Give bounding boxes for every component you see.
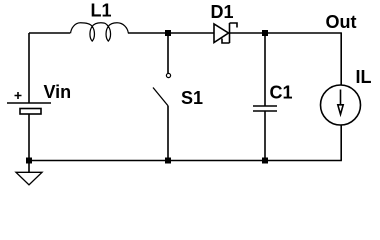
svg-text:IL: IL xyxy=(356,67,372,87)
node junction bottom switch xyxy=(165,158,171,164)
inductor L1 xyxy=(71,23,129,41)
wire capacitor top xyxy=(264,33,266,106)
wire switch bottom xyxy=(167,106,169,161)
diode D1 xyxy=(214,24,229,43)
node junction top capacitor xyxy=(262,30,268,36)
ground stub xyxy=(28,161,30,173)
svg-text:D1: D1 xyxy=(211,2,234,22)
svg-text:S1: S1 xyxy=(181,88,203,108)
wire battery to rail xyxy=(28,114,30,161)
bottom rail xyxy=(29,160,342,162)
svg-text:L1: L1 xyxy=(91,1,112,21)
node junction top switch xyxy=(165,30,171,36)
wire top-left horizontal xyxy=(29,32,70,34)
svg-text:Vin: Vin xyxy=(44,82,72,102)
wire right vertical bottom xyxy=(340,125,342,161)
wire left vertical (battery top) xyxy=(28,33,30,103)
wire switch top xyxy=(167,33,169,73)
wire right vertical top xyxy=(340,33,342,85)
switch S1 blade xyxy=(153,88,168,107)
wire capacitor bottom xyxy=(264,111,266,161)
switch S1 contact circle xyxy=(166,73,170,77)
battery Vin bottom plate xyxy=(20,109,41,115)
current source IL circle xyxy=(321,85,361,125)
svg-text:Out: Out xyxy=(326,12,357,32)
battery plus sign xyxy=(15,92,22,99)
wire diode to top-right corner xyxy=(230,32,342,34)
wire inductor to diode xyxy=(128,32,214,34)
current source arrow xyxy=(340,90,342,106)
battery Vin top plate xyxy=(7,102,51,104)
node junction bottom battery/ground xyxy=(26,158,32,164)
capacitor C1 plates xyxy=(253,106,277,111)
node junction bottom capacitor xyxy=(262,158,268,164)
svg-text:C1: C1 xyxy=(270,83,293,103)
ground xyxy=(16,172,42,185)
